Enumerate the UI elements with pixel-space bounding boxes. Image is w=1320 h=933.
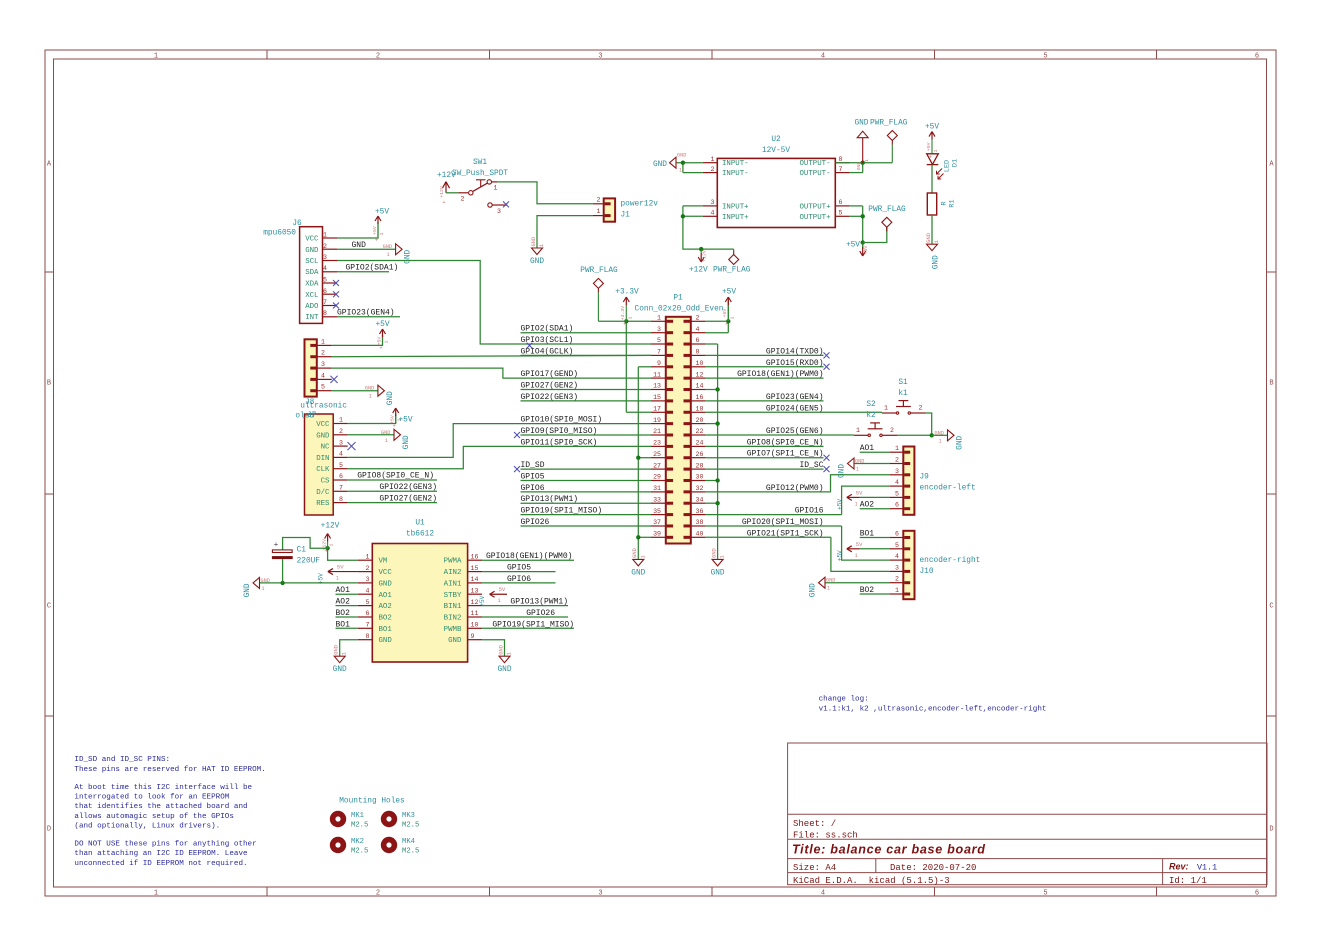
J6 pin 1 VCC xyxy=(323,237,338,239)
wire U2 output- to GND xyxy=(835,162,892,164)
svg-text:GND: GND xyxy=(677,153,686,159)
svg-text:13: 13 xyxy=(471,588,479,595)
junction GND rail xyxy=(715,501,719,505)
svg-text:PWMB: PWMB xyxy=(444,626,462,634)
svg-text:BO1: BO1 xyxy=(379,626,393,634)
wire P1 left row 14 (ID_SD) xyxy=(521,468,652,470)
svg-text:that identifies the attached b: that identifies the attached board and xyxy=(74,803,247,811)
svg-text:GND: GND xyxy=(379,580,393,588)
junction +12V flag node xyxy=(699,247,703,251)
svg-text:12: 12 xyxy=(696,371,704,378)
J6 pin 8 INT xyxy=(323,316,338,318)
wire J10 pin1 BO2 xyxy=(860,593,890,595)
svg-text:36: 36 xyxy=(696,508,704,515)
wire J9 pin4 to GPIO16 xyxy=(842,486,890,514)
svg-text:29: 29 xyxy=(653,474,661,481)
svg-text:D1: D1 xyxy=(952,159,960,167)
no-connect J8 pin4 xyxy=(330,376,337,383)
J10 pin 2 xyxy=(890,582,903,584)
connector J7 oled xyxy=(305,414,334,515)
J7 pin 5 CLK xyxy=(333,468,348,470)
svg-text:24: 24 xyxy=(696,440,704,447)
svg-text:21: 21 xyxy=(653,428,661,435)
svg-text:1: 1 xyxy=(539,244,545,247)
wire U1 PWMB xyxy=(482,627,574,629)
P1 pin 33 xyxy=(651,502,666,504)
svg-text:1: 1 xyxy=(933,149,939,152)
svg-text:1: 1 xyxy=(379,232,385,235)
P1 pin 1 xyxy=(651,320,666,322)
P1 pin 18 xyxy=(691,411,706,413)
mounting hole MK2 xyxy=(330,837,346,853)
svg-text:+5V: +5V xyxy=(399,417,413,425)
power +5V J9 xyxy=(847,494,860,500)
ground J10 pin2 xyxy=(819,577,826,588)
wire P1 left row 4 (GPIO4(GCLK)) xyxy=(521,354,652,356)
svg-text:GPIO2(SDA1): GPIO2(SDA1) xyxy=(346,263,399,272)
wire P1 right row 18 (GPIO16) xyxy=(706,514,842,516)
svg-text:6: 6 xyxy=(323,288,327,295)
svg-text:7: 7 xyxy=(657,349,661,356)
svg-text:GND: GND xyxy=(405,249,413,263)
svg-text:GND: GND xyxy=(244,583,252,597)
svg-text:Rev:: Rev: xyxy=(1169,861,1189,871)
wire P1 right row 13 (GPIO7(SPI1_CE_N)) xyxy=(706,457,824,459)
svg-text:GPIO13(PWM1): GPIO13(PWM1) xyxy=(510,598,568,607)
svg-text:BO2: BO2 xyxy=(336,609,351,618)
P1 pin 27 xyxy=(651,468,666,470)
svg-text:5: 5 xyxy=(895,490,899,497)
svg-text:encoder-right: encoder-right xyxy=(920,557,981,565)
svg-text:18: 18 xyxy=(696,406,704,413)
P1 pin 16 xyxy=(691,400,706,402)
P1 pin 36 xyxy=(691,514,706,516)
svg-text:5: 5 xyxy=(321,384,325,391)
svg-text:B: B xyxy=(1269,380,1273,388)
svg-text:6: 6 xyxy=(339,473,343,480)
J8 pin 4 xyxy=(317,378,332,380)
svg-text:C: C xyxy=(1269,603,1273,611)
svg-text:1: 1 xyxy=(895,587,899,594)
svg-text:GPIO5: GPIO5 xyxy=(507,564,531,573)
svg-text:GND: GND xyxy=(631,569,645,577)
mounting hole MK4 xyxy=(381,837,397,853)
svg-text:GND: GND xyxy=(531,237,537,247)
J6 pin 7 ADO xyxy=(323,305,338,307)
svg-text:1: 1 xyxy=(507,652,513,655)
svg-text:26: 26 xyxy=(696,451,704,458)
power +5V J6 xyxy=(377,224,379,237)
svg-text:3: 3 xyxy=(895,564,899,571)
svg-text:VCC: VCC xyxy=(316,421,330,429)
ground S1/S2 xyxy=(948,430,955,441)
svg-text:OUTPUT-: OUTPUT- xyxy=(799,170,830,178)
svg-text:AO1: AO1 xyxy=(379,592,393,600)
P1 pin 32 xyxy=(691,491,706,493)
svg-text:3: 3 xyxy=(497,208,501,215)
J6 pin 5 XDA xyxy=(323,282,338,284)
svg-text:GND: GND xyxy=(711,569,725,577)
svg-text:5: 5 xyxy=(657,337,661,344)
svg-text:1: 1 xyxy=(856,427,860,434)
svg-text:tb6612: tb6612 xyxy=(406,531,434,539)
wire S1 to GND rail xyxy=(926,413,932,435)
svg-text:+12V: +12V xyxy=(702,250,708,262)
svg-text:8: 8 xyxy=(366,633,370,640)
svg-text:11: 11 xyxy=(653,371,661,378)
J8 pin 3 xyxy=(317,367,332,369)
svg-text:PWR_FLAG: PWR_FLAG xyxy=(580,267,618,275)
power +3.3V xyxy=(625,305,627,321)
wire J10 pin3 from GPIO21 xyxy=(831,537,890,571)
svg-text:1: 1 xyxy=(321,338,325,345)
svg-text:4: 4 xyxy=(339,451,343,458)
svg-text:2: 2 xyxy=(890,427,894,434)
svg-text:D: D xyxy=(47,826,51,834)
svg-text:32: 32 xyxy=(696,485,704,492)
svg-text:GND: GND xyxy=(333,666,347,674)
svg-text:1: 1 xyxy=(494,185,498,192)
svg-text:Title: balance car base board: Title: balance car base board xyxy=(792,843,986,857)
svg-text:U2: U2 xyxy=(771,136,781,144)
wire U1 AIN1 xyxy=(482,582,555,584)
junction C1 bottom xyxy=(280,581,284,585)
svg-text:P1: P1 xyxy=(673,295,683,303)
svg-text:ID_SD and ID_SC PINS:: ID_SD and ID_SC PINS: xyxy=(74,756,170,764)
wire P1 right row 9 (GPIO24(GEN5)) xyxy=(706,411,882,413)
svg-text:1: 1 xyxy=(154,889,158,897)
svg-text:R: R xyxy=(941,201,949,205)
svg-text:GPIO8(SPI0_CE_N): GPIO8(SPI0_CE_N) xyxy=(357,472,434,481)
no-connect flag xyxy=(824,364,830,370)
wire J6 GND xyxy=(337,248,396,250)
svg-text:INPUT+: INPUT+ xyxy=(722,203,749,211)
svg-text:INPUT+: INPUT+ xyxy=(722,214,749,222)
svg-text:GND: GND xyxy=(839,464,847,478)
P1 pin 31 xyxy=(651,491,666,493)
wire P1 right row 14 (ID_SC) xyxy=(706,468,824,470)
svg-text:3: 3 xyxy=(895,468,899,475)
svg-text:10: 10 xyxy=(471,622,479,629)
wire S1 pin1 (GEN5) xyxy=(881,411,883,414)
wire P1 left row 15 (GPIO5) xyxy=(521,480,652,482)
svg-text:2: 2 xyxy=(339,428,343,435)
P1 pin 15 xyxy=(651,400,666,402)
wire J10 pin5 +5V xyxy=(859,548,890,550)
ground U1 pin9 xyxy=(499,656,510,663)
wire P1 left row 8 (GPIO22(GEN3)) xyxy=(521,400,652,402)
svg-text:J6: J6 xyxy=(292,220,302,228)
svg-text:interrogated to look for an EE: interrogated to look for an EEPROM xyxy=(74,794,229,802)
svg-text:2: 2 xyxy=(597,196,601,203)
svg-text:2: 2 xyxy=(366,565,370,572)
svg-text:allows automagic setup of the: allows automagic setup of the GPIOs xyxy=(74,813,234,821)
svg-text:3: 3 xyxy=(339,439,343,446)
svg-text:10: 10 xyxy=(696,360,704,367)
no-connect mark SCL1 xyxy=(527,343,533,349)
svg-text:Date: 2020-07-20: Date: 2020-07-20 xyxy=(890,863,976,873)
wire U2 input+ +12V xyxy=(683,205,703,207)
svg-text:unconnected if ID EEPROM not r: unconnected if ID EEPROM not required. xyxy=(74,860,247,868)
svg-text:1: 1 xyxy=(711,156,715,163)
P1 pin 20 xyxy=(691,423,706,425)
svg-text:GPIO19(SPI1_MISO): GPIO19(SPI1_MISO) xyxy=(492,620,574,629)
svg-text:+: + xyxy=(274,541,279,549)
svg-text:NC: NC xyxy=(321,444,330,452)
power +12V below U2 xyxy=(700,249,702,253)
wire J7 D/C xyxy=(348,490,437,492)
svg-text:34: 34 xyxy=(696,496,704,503)
svg-text:BO2: BO2 xyxy=(379,615,392,623)
J1 pin 2 xyxy=(593,203,604,205)
svg-text:GND: GND xyxy=(316,432,330,440)
wire R1 to GND xyxy=(931,215,933,244)
ic U1 tb6612 xyxy=(372,544,467,663)
wire P1 right row 6 (GPIO18(GEN1)(PWM0)) xyxy=(706,377,824,379)
svg-text:+5V: +5V xyxy=(372,226,378,235)
svg-text:GPIO18(GEN1)(PWM0): GPIO18(GEN1)(PWM0) xyxy=(737,370,823,379)
wire LED to R1 xyxy=(931,165,933,193)
svg-text:15: 15 xyxy=(471,565,479,572)
junction GND rail xyxy=(715,387,719,391)
title block xyxy=(788,743,1267,885)
svg-text:M2.5: M2.5 xyxy=(402,822,419,830)
svg-text:Sheet: /: Sheet: / xyxy=(793,819,836,829)
svg-text:GND: GND xyxy=(933,255,941,269)
P1 pin 23 xyxy=(651,445,666,447)
wire P1 left row 11 (GPIO9(SPI0_MISO)) xyxy=(521,434,652,436)
no-connect flag xyxy=(824,352,830,358)
P1 pin 34 xyxy=(691,502,706,504)
J7 pin 6 CS xyxy=(333,479,348,481)
ground J7 pin2 xyxy=(394,429,401,440)
svg-text:GPIO6: GPIO6 xyxy=(507,575,531,584)
wire +12V to SW1 pin2 xyxy=(446,192,458,194)
svg-text:GPIO16: GPIO16 xyxy=(795,507,824,516)
svg-text:38: 38 xyxy=(696,519,704,526)
U1 pin 3 GND xyxy=(358,582,373,584)
SW1 pin2 xyxy=(458,192,468,194)
svg-text:2: 2 xyxy=(321,350,325,357)
svg-text:3: 3 xyxy=(598,889,602,897)
connector J1 power12v xyxy=(604,198,615,221)
svg-text:4: 4 xyxy=(696,326,700,333)
svg-text:1: 1 xyxy=(720,555,726,558)
wire to GND right xyxy=(932,434,948,436)
P1 pin 14 xyxy=(691,389,706,391)
svg-text:14: 14 xyxy=(471,576,479,583)
svg-text:1: 1 xyxy=(856,467,859,473)
connector P1 Conn_02x20_Odd_Even xyxy=(666,317,691,544)
svg-text:1: 1 xyxy=(679,168,682,174)
U1 pin 14 AIN1 xyxy=(468,582,483,584)
ground below R1 xyxy=(927,244,938,251)
svg-text:+: + xyxy=(725,321,728,328)
svg-text:GPIO6: GPIO6 xyxy=(521,484,545,493)
svg-text:1: 1 xyxy=(385,438,388,444)
svg-text:3: 3 xyxy=(323,254,327,261)
PWR_FLAG near P1 xyxy=(598,320,626,322)
svg-text:BIN1: BIN1 xyxy=(444,603,462,611)
P1 pin 12 xyxy=(691,377,706,379)
P1 pin 26 xyxy=(691,457,706,459)
junction U2 out+ xyxy=(861,214,865,218)
svg-text:INPUT-: INPUT- xyxy=(722,160,749,168)
svg-text:4: 4 xyxy=(711,210,715,217)
wire U1 AO1 xyxy=(336,593,358,595)
svg-text:+5V: +5V xyxy=(722,309,728,318)
svg-text:GND: GND xyxy=(632,548,638,558)
P1 pin 39 xyxy=(651,536,666,538)
U1 pin 8 GND xyxy=(358,639,373,641)
svg-text:+12V: +12V xyxy=(689,266,708,274)
svg-text:14: 14 xyxy=(696,383,704,390)
svg-text:BO1: BO1 xyxy=(336,620,351,629)
no-connect J6 xyxy=(333,280,339,286)
svg-text:3: 3 xyxy=(598,52,602,60)
junction +12V node xyxy=(325,546,329,550)
svg-text:GND: GND xyxy=(653,161,667,169)
J7 pin 1 VCC xyxy=(333,423,348,425)
svg-text:ADO: ADO xyxy=(305,303,319,311)
svg-text:2: 2 xyxy=(376,889,380,897)
svg-text:AO2: AO2 xyxy=(860,501,875,510)
P1 pin 25 xyxy=(651,457,666,459)
svg-text:VCC: VCC xyxy=(379,569,393,577)
U2 pin 1 INPUT- xyxy=(703,162,718,164)
svg-text:R1: R1 xyxy=(949,199,957,207)
svg-text:12: 12 xyxy=(471,599,479,606)
J10 pin 6 xyxy=(890,537,903,539)
connector J10 encoder-right xyxy=(903,531,914,599)
wire GND rail right of P1 xyxy=(717,344,719,559)
svg-text:+5V: +5V xyxy=(836,499,843,510)
svg-text:20: 20 xyxy=(696,417,704,424)
svg-text:33: 33 xyxy=(653,496,661,503)
svg-text:+5V: +5V xyxy=(925,124,939,132)
J10 pin 5 xyxy=(890,548,903,550)
no-connect J6 xyxy=(333,291,339,297)
svg-text:PWR_FLAG: PWR_FLAG xyxy=(713,266,751,274)
P1 pin 5 xyxy=(651,343,666,345)
svg-text:GPIO3(SCL1): GPIO3(SCL1) xyxy=(521,336,574,345)
svg-text:MK2: MK2 xyxy=(351,838,364,846)
svg-text:6: 6 xyxy=(839,199,843,206)
svg-text:BIN2: BIN2 xyxy=(444,615,462,623)
wire J7 CLK to SPI0_SCK xyxy=(348,446,521,468)
svg-text:1: 1 xyxy=(336,576,339,582)
connector J9 encoder-left xyxy=(903,447,914,515)
wire U2 output+ +5V xyxy=(850,205,863,207)
svg-text:9: 9 xyxy=(471,633,475,640)
wire J10 pin6 BO1 xyxy=(860,537,890,539)
svg-text:GPIO26: GPIO26 xyxy=(521,518,550,527)
J8 pin 5 xyxy=(317,390,332,392)
svg-text:KiCad E.D.A. kicad (5.1.5)-3: KiCad E.D.A. kicad (5.1.5)-3 xyxy=(793,876,950,886)
svg-text:J9: J9 xyxy=(920,474,930,482)
wire J7 VCC to +5V xyxy=(348,414,396,424)
svg-text:1: 1 xyxy=(827,586,830,592)
svg-text:+5V: +5V xyxy=(926,142,932,151)
svg-text:OUTPUT+: OUTPUT+ xyxy=(799,214,831,222)
wire J1 pin1 to GND xyxy=(537,216,593,248)
ground J9 pin2 xyxy=(848,458,855,469)
svg-text:+: + xyxy=(393,423,396,430)
junction +5V flag node xyxy=(861,240,865,244)
svg-text:SW_Push_SPDT: SW_Push_SPDT xyxy=(452,170,508,178)
no-connect flag xyxy=(824,466,830,472)
svg-text:27: 27 xyxy=(653,462,661,469)
svg-text:than attaching an I2C ID EEPRO: than attaching an I2C ID EEPROM. Leave xyxy=(74,850,248,858)
PWR_FLAG on +12V xyxy=(733,249,735,250)
svg-text:7: 7 xyxy=(339,485,343,492)
junction U2 in- xyxy=(681,161,685,165)
svg-text:4: 4 xyxy=(821,889,825,897)
svg-text:6: 6 xyxy=(1255,889,1259,897)
svg-text:GND: GND xyxy=(826,578,835,584)
wire J6 SCL to P1 pin5 xyxy=(337,261,521,345)
wire to PWR_FLAG xyxy=(863,227,887,242)
svg-text:GPIO10(SPI0_MOSI): GPIO10(SPI0_MOSI) xyxy=(521,416,603,425)
svg-text:GPIO4(GCLK): GPIO4(GCLK) xyxy=(521,347,574,356)
svg-text:+3.3V: +3.3V xyxy=(620,306,626,321)
svg-text:GPIO18(GEN1)(PWM0): GPIO18(GEN1)(PWM0) xyxy=(486,552,572,561)
svg-text:Conn_02x20_Odd_Even: Conn_02x20_Odd_Even xyxy=(635,306,724,314)
junction GND pin25 xyxy=(636,456,640,460)
svg-text:MK1: MK1 xyxy=(351,812,364,820)
J7 pin 7 D/C xyxy=(333,490,348,492)
svg-text:GPIO24(GEN5): GPIO24(GEN5) xyxy=(766,404,824,413)
svg-text:CLK: CLK xyxy=(316,466,330,474)
svg-text:File: ss.sch: File: ss.sch xyxy=(793,831,858,841)
P1 pin 21 xyxy=(651,434,666,436)
svg-text:MK4: MK4 xyxy=(402,838,415,846)
svg-text:GPIO25(GEN6): GPIO25(GEN6) xyxy=(766,427,824,436)
U1 pin 10 PWMB xyxy=(468,627,483,629)
ic U2 12V-5V converter xyxy=(717,158,835,227)
J6 pin 2 GND xyxy=(323,248,338,250)
wire P1 left row 3 (GPIO3(SCL1)) xyxy=(521,343,652,345)
SW1 pin3 no-connect xyxy=(488,203,492,207)
svg-text:B: B xyxy=(47,380,51,388)
wire P1 right row 4 (GPIO14(TXD0)) xyxy=(706,354,824,356)
J9 pin 4 xyxy=(890,485,903,487)
svg-text:1: 1 xyxy=(895,445,899,452)
svg-text:23: 23 xyxy=(653,440,661,447)
wire SW1 to J1 pin2 xyxy=(498,182,593,204)
svg-text:+3.3V: +3.3V xyxy=(615,289,639,297)
P1 pin 28 xyxy=(691,468,706,470)
P1 pin 11 xyxy=(651,377,666,379)
svg-text:GPIO23(GEN4): GPIO23(GEN4) xyxy=(766,393,824,402)
svg-text:2: 2 xyxy=(376,52,380,60)
svg-text:GND: GND xyxy=(261,578,270,584)
wire P1 left row 19 (GPIO26) xyxy=(521,525,652,527)
J7 pin 2 GND xyxy=(333,434,348,436)
U2 pin 6 OUTPUT+ xyxy=(835,205,850,207)
PWR_FLAG on output- xyxy=(891,145,893,163)
svg-text:2: 2 xyxy=(895,576,899,583)
svg-text:12V-5V: 12V-5V xyxy=(762,147,790,155)
svg-text:1: 1 xyxy=(366,553,370,560)
J10 pin 3 xyxy=(890,570,903,572)
U1 pin 13 STBY xyxy=(468,593,483,595)
svg-text:11: 11 xyxy=(471,610,479,617)
svg-text:+5V: +5V xyxy=(722,289,736,297)
svg-text:GPIO20(SPI1_MOSI): GPIO20(SPI1_MOSI) xyxy=(742,518,824,527)
wire P1 left row 18 (GPIO19(SPI1_MISO)) xyxy=(521,514,652,516)
svg-text:Size: A4: Size: A4 xyxy=(793,863,836,873)
